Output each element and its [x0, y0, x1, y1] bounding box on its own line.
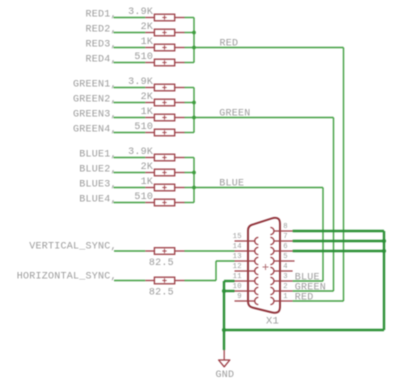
wire resistor BLUE2 to bus	[185, 172, 195, 174]
junction on GREEN bus row2	[192, 101, 196, 105]
wire RED3 to resistor	[114, 47, 146, 49]
wire HORIZONTAL_SYNC resistor east	[185, 280, 217, 282]
pin 15 of X1 (left)	[233, 233, 259, 244]
wire GND pin 10	[224, 290, 235, 292]
wire resistor BLUE3 to bus	[185, 187, 195, 189]
svg-text:510: 510	[134, 122, 153, 133]
wire resistor GREEN3 to bus	[185, 117, 195, 119]
wire resistor RED4 to bus	[185, 62, 195, 64]
wire BLUE3 to resistor	[114, 187, 146, 189]
resistor 1K (RED3)	[145, 44, 184, 51]
svg-text:BLUE2,: BLUE2,	[79, 165, 117, 176]
pin 7 of X1 (right)	[270, 233, 292, 245]
wire net BLUE to pin 3	[293, 280, 323, 282]
svg-text:3: 3	[283, 273, 288, 281]
wire BLUE1 to resistor	[114, 157, 146, 159]
svg-text:5: 5	[283, 253, 288, 261]
svg-text:2: 2	[283, 283, 288, 291]
svg-text:3.9K: 3.9K	[128, 7, 153, 18]
wire RED2 to resistor	[114, 32, 146, 34]
wire GND pin 6	[293, 250, 384, 252]
svg-text:BLUE4,: BLUE4,	[79, 195, 117, 206]
pin 10 of X1 (left)	[233, 283, 259, 294]
wire net BLUE horizontal	[194, 187, 323, 189]
wire HORIZONTAL_SYNC to pin 13	[216, 260, 235, 262]
junction GND pin6	[382, 249, 386, 253]
wire net RED horizontal	[194, 47, 344, 49]
resistor 510 (RED4)	[145, 59, 184, 66]
svg-text:X1: X1	[266, 316, 279, 328]
wire GREEN2 to resistor	[114, 102, 146, 104]
op ref cross X1 origin	[263, 264, 269, 270]
junction GND pin7	[382, 239, 386, 243]
svg-text:GND: GND	[216, 370, 235, 379]
resistor 510 (GREEN4)	[145, 129, 184, 136]
svg-text:2K: 2K	[141, 22, 154, 33]
pin 6 of X1 (right)	[270, 243, 292, 255]
svg-text:HORIZONTAL_SYNC,: HORIZONTAL_SYNC,	[17, 271, 117, 282]
wire RED bus vertical	[193, 18, 195, 63]
wire GND left vertical	[223, 281, 225, 350]
wire GND bottom horizontal	[224, 329, 384, 331]
pin 9 of X1 (left)	[235, 293, 259, 304]
svg-text:4: 4	[283, 263, 288, 271]
svg-text:1K: 1K	[141, 177, 154, 188]
resistor 2K (GREEN2)	[145, 99, 184, 106]
pin 2 of X1 (right)	[270, 283, 292, 295]
svg-text:1: 1	[283, 293, 288, 301]
svg-text:BLUE1,: BLUE1,	[79, 150, 117, 161]
wire net GREEN to pin 2	[293, 290, 334, 292]
resistor 1K (BLUE3)	[145, 184, 184, 191]
pin 11 of X1 (left)	[233, 273, 259, 284]
wire resistor GREEN4 to bus	[185, 132, 195, 134]
pin 14 of X1 (left)	[233, 243, 259, 254]
wire GND pin 7	[293, 240, 384, 242]
wire net GREEN vertical	[333, 118, 335, 292]
wire resistor BLUE4 to bus	[185, 202, 195, 204]
pin 3 of X1 (right)	[270, 273, 292, 285]
svg-text:1K: 1K	[141, 37, 154, 48]
wire net BLUE vertical	[322, 188, 324, 282]
svg-text:GREEN2,: GREEN2,	[73, 95, 117, 106]
pin 12 of X1 (left)	[233, 263, 259, 274]
pin 1 of X1 (right)	[270, 293, 292, 305]
svg-text:15: 15	[233, 233, 242, 241]
svg-text:RED1,: RED1,	[86, 10, 117, 21]
wire net RED vertical	[343, 48, 345, 302]
svg-text:RED4,: RED4,	[86, 55, 117, 66]
svg-text:13: 13	[233, 253, 242, 261]
wire RED4 to resistor	[114, 62, 146, 64]
svg-text:510: 510	[134, 52, 153, 63]
junction on RED bus row3	[192, 46, 196, 50]
resistor 510 (BLUE4)	[145, 199, 184, 206]
resistor 1K (GREEN3)	[145, 114, 184, 121]
svg-text:BLUE3,: BLUE3,	[79, 180, 117, 191]
wire BLUE bus vertical	[193, 158, 195, 203]
svg-text:82.5: 82.5	[149, 287, 174, 298]
junction on BLUE bus row2	[192, 171, 196, 175]
junction on BLUE bus row3	[192, 186, 196, 190]
wire BLUE2 to resistor	[114, 172, 146, 174]
svg-text:12: 12	[233, 263, 242, 271]
wire net RED to pin 1	[293, 300, 344, 302]
wire GREEN1 to resistor	[114, 87, 146, 89]
svg-text:9: 9	[237, 293, 242, 301]
wire resistor GREEN2 to bus	[185, 102, 195, 104]
wire GND pin 8	[293, 230, 384, 232]
wire VERTICAL_SYNC resistor to pin 14	[185, 250, 235, 252]
svg-text:RED: RED	[295, 293, 314, 304]
junction GND bottom	[222, 328, 226, 332]
wire GND right vertical	[383, 231, 385, 330]
svg-text:510: 510	[134, 192, 153, 203]
svg-text:6: 6	[283, 243, 288, 251]
resistor 2K (RED2)	[145, 29, 184, 36]
svg-text:GREEN3,: GREEN3,	[73, 110, 117, 121]
svg-text:RED3,: RED3,	[86, 40, 117, 51]
wire RED1 to resistor	[114, 17, 146, 19]
resistor 82.5 (VERTICAL_SYNC)	[145, 248, 184, 255]
wire GREEN bus vertical	[193, 88, 195, 133]
wire VERTICAL_SYNC to resistor	[114, 250, 145, 252]
wire HORIZONTAL_SYNC jog up	[215, 261, 217, 281]
resistor 2K (BLUE2)	[145, 169, 184, 176]
resistor 82.5 (HORIZONTAL_SYNC)	[145, 277, 184, 284]
svg-text:2K: 2K	[141, 162, 154, 173]
wire net GREEN horizontal	[194, 117, 334, 119]
pin 8 of X1 (right)	[270, 223, 292, 235]
wire HORIZONTAL_SYNC to resistor	[114, 280, 145, 282]
svg-text:VERTICAL_SYNC,: VERTICAL_SYNC,	[29, 241, 117, 252]
wire GND pin 11	[224, 280, 235, 282]
svg-text:82.5: 82.5	[149, 258, 174, 269]
pin 4 of X1 (right)	[270, 263, 292, 275]
svg-text:GREEN4,: GREEN4,	[73, 125, 117, 136]
svg-text:3.9K: 3.9K	[128, 147, 153, 158]
ground GND symbol	[219, 350, 230, 367]
svg-text:RED2,: RED2,	[86, 25, 117, 36]
pin 13 of X1 (left)	[233, 253, 259, 264]
svg-text:GREEN1,: GREEN1,	[73, 80, 117, 91]
svg-text:3.9K: 3.9K	[128, 77, 153, 88]
svg-text:2K: 2K	[141, 92, 154, 103]
resistor 3.9K (RED1)	[145, 14, 184, 21]
resistor 3.9K (GREEN1)	[145, 84, 184, 91]
connector X1 body	[248, 218, 280, 313]
wire BLUE4 to resistor	[114, 202, 146, 204]
wire GREEN3 to resistor	[114, 117, 146, 119]
wire resistor GREEN1 to bus	[185, 87, 195, 89]
svg-text:1K: 1K	[141, 107, 154, 118]
junction on RED bus row2	[192, 31, 196, 35]
pin 5 stub extension	[293, 260, 295, 262]
wire resistor RED3 to bus	[185, 47, 195, 49]
wire GREEN4 to resistor	[114, 132, 146, 134]
junction on GREEN bus row3	[192, 116, 196, 120]
resistor 3.9K (BLUE1)	[145, 154, 184, 161]
svg-text:7: 7	[283, 233, 288, 241]
svg-text:10: 10	[233, 283, 242, 291]
pin 5 of X1 (right)	[270, 253, 292, 265]
svg-text:14: 14	[233, 243, 242, 251]
svg-text:11: 11	[233, 273, 242, 281]
wire resistor BLUE1 to bus	[185, 157, 195, 159]
svg-text:8: 8	[283, 223, 288, 231]
wire resistor RED2 to bus	[185, 32, 195, 34]
junction GND pin10	[222, 289, 226, 293]
wire resistor RED1 to bus	[185, 17, 195, 19]
